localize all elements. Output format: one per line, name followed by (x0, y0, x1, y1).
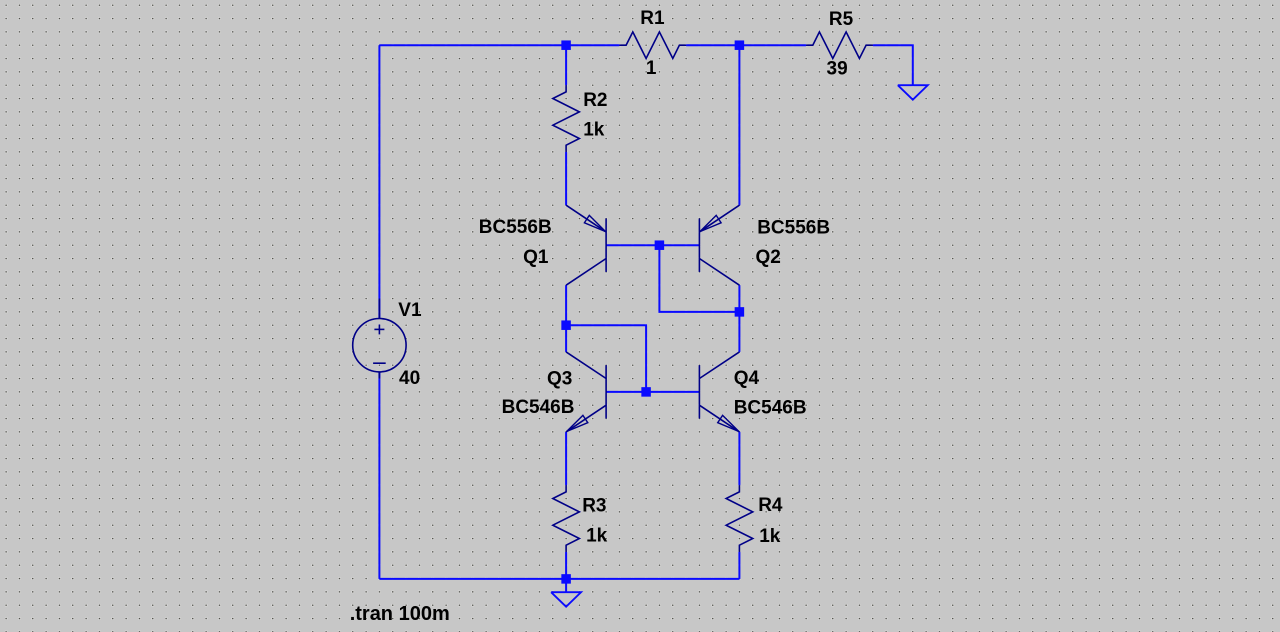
wire Q1 base to Q2 base (606, 244, 699, 246)
svg-text:R3: R3 (582, 496, 606, 517)
junction top at Q2 emitter branch (735, 40, 745, 50)
wire node A horizontal then down to Q3/Q4 base rail (566, 325, 646, 392)
svg-text:BC556B: BC556B (757, 217, 830, 238)
svg-text:1k: 1k (586, 526, 608, 547)
svg-text:Q4: Q4 (734, 368, 760, 389)
svg-text:BC556B: BC556B (479, 217, 552, 238)
ground (bottom) (551, 592, 581, 607)
wire base node down and right to node B (659, 245, 739, 312)
wire R3 bottom pin to bottom rail (565, 552, 567, 579)
wire node top junction to R2 top pin (565, 45, 567, 85)
wire Q4 collector to node B (738, 312, 740, 352)
resistor R4 (726, 485, 753, 552)
junction top at R2 branch (561, 40, 571, 50)
svg-text:BC546B: BC546B (734, 397, 807, 418)
svg-text:Q3: Q3 (547, 368, 572, 389)
wire R2 bottom pin to Q1 emitter (565, 152, 567, 205)
svg-text:R1: R1 (640, 8, 665, 29)
transistor Q2 (PNP) (699, 205, 739, 285)
wire Q1 collector to node A (565, 285, 567, 325)
resistor R2 (553, 85, 580, 152)
transistor Q3 (NPN) (566, 352, 606, 432)
svg-text:.tran 100m: .tran 100m (350, 603, 450, 625)
svg-text:R2: R2 (583, 90, 607, 111)
junction Q1-Q2 base node (655, 240, 665, 250)
wire Q4 emitter to R4 top pin (738, 432, 740, 485)
wire node A to Q3 collector (565, 325, 567, 352)
svg-text:1k: 1k (583, 120, 605, 141)
svg-text:V1: V1 (398, 300, 422, 321)
wire Q2 collector to node B (738, 285, 740, 312)
wire Q3 base to Q4 base (606, 391, 699, 393)
svg-text:BC546B: BC546B (502, 397, 575, 418)
wire top from V1 branch to R1 left pin (379, 44, 619, 46)
voltage source V1 (353, 299, 406, 379)
junction node A (Q1/Q3 collectors) (561, 320, 571, 330)
svg-text:1: 1 (646, 58, 657, 79)
wire R1 right pin to R5 left pin (686, 44, 806, 46)
wire left rail V1 top (378, 45, 380, 318)
wire Q2 emitter up to top junction (738, 45, 740, 205)
svg-text:1k: 1k (759, 526, 781, 547)
resistor R3 (553, 485, 580, 552)
junction bottom ground node (561, 574, 571, 584)
svg-text:39: 39 (827, 58, 848, 79)
resistor R5 (806, 32, 873, 59)
svg-text:Q2: Q2 (756, 247, 781, 268)
transistor Q1 (PNP) (566, 205, 606, 285)
wire bottom junction to ground stub (565, 579, 567, 592)
ground (top right) (898, 85, 928, 100)
wire R4 bottom pin to bottom rail (738, 552, 740, 579)
wire Q3 emitter to R3 top pin (565, 432, 567, 485)
wire left rail V1 bottom (378, 372, 380, 579)
junction node B (Q2/Q4 collectors) (735, 307, 745, 317)
junction Q3-Q4 base node (641, 387, 651, 397)
svg-text:R5: R5 (829, 9, 854, 30)
svg-text:R4: R4 (758, 495, 783, 516)
transistor Q4 (NPN) (699, 352, 739, 432)
resistor R1 (619, 32, 686, 59)
svg-text:Q1: Q1 (523, 247, 549, 268)
svg-text:40: 40 (399, 368, 420, 389)
wire bottom rail (379, 578, 739, 580)
wire R5 right pin to top-right corner down to ground (873, 45, 913, 85)
